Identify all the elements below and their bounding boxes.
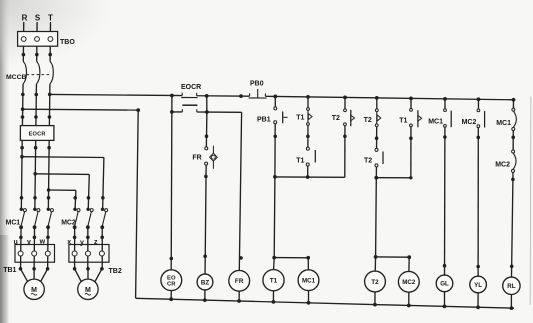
svg-text:TB2: TB2 xyxy=(109,268,122,275)
wire T2 branch lower xyxy=(343,126,347,178)
node junction BZ/FR tap xyxy=(205,110,209,114)
svg-text:R: R xyxy=(22,14,28,23)
wire drop to T1 MC1 coils xyxy=(273,177,276,258)
contact MC1 NO aux xyxy=(428,99,451,139)
wire T1 branch middle xyxy=(306,125,310,147)
lamp RL xyxy=(503,277,520,310)
page edge line right xyxy=(529,97,532,306)
svg-text:FR: FR xyxy=(192,155,201,162)
svg-text:PB1: PB1 xyxy=(257,117,271,124)
node z terminal label xyxy=(94,239,98,246)
contact MC2 NC aux xyxy=(495,137,516,181)
wire MC2 feed from phase T xyxy=(47,188,76,209)
wire EOCR block right side drop xyxy=(206,96,208,112)
wire tie above T1 MC1 coils xyxy=(272,256,310,270)
junction dots above EOCR box xyxy=(21,115,52,119)
wire YL branch xyxy=(476,137,480,276)
contact T1 timed NO second xyxy=(399,98,421,177)
node rail dot left of PB0 xyxy=(239,94,243,98)
node T phase label xyxy=(48,14,53,23)
wire BZ branch lower xyxy=(203,165,207,274)
wire phase T vertical xyxy=(48,22,51,269)
node junction EO branch at NO row xyxy=(170,110,174,114)
lamp GL xyxy=(436,275,453,308)
contact EOCR NC on rail xyxy=(181,84,201,105)
node rail junction T2 second branch xyxy=(375,96,379,100)
svg-text:EOCR: EOCR xyxy=(29,131,46,137)
terminal block TB1 xyxy=(3,245,54,274)
wire RL branch xyxy=(510,179,514,277)
coil timer T2 xyxy=(365,271,386,306)
contact T2 NO instant xyxy=(364,148,383,167)
node S phase label xyxy=(35,14,41,23)
svg-text:M: M xyxy=(85,287,91,294)
node rail junction at EOCR right xyxy=(205,94,209,98)
node rail junction at EOCR left xyxy=(170,94,174,98)
svg-text:TB1: TB1 xyxy=(3,267,16,274)
svg-text:TBO: TBO xyxy=(60,39,75,46)
svg-text:y: y xyxy=(80,239,84,246)
contact FR flasher xyxy=(192,146,217,169)
svg-text:MC2: MC2 xyxy=(61,219,76,226)
contact T1 NO instant xyxy=(296,147,315,166)
wire MC2 feed from phase S xyxy=(33,172,89,209)
svg-text:T1: T1 xyxy=(296,158,304,165)
coil flasher relay FR xyxy=(229,270,250,303)
wire motor 1 leads xyxy=(21,269,48,282)
svg-text:GL: GL xyxy=(440,281,449,288)
junction dots below TB2 xyxy=(73,267,104,271)
wire drop to T2 MC2 coils xyxy=(375,178,378,257)
wire FR coil feed xyxy=(207,112,243,270)
svg-text:T2: T2 xyxy=(364,158,372,165)
svg-text:MC1: MC1 xyxy=(428,119,443,126)
contact T2 timed NO second xyxy=(364,98,381,127)
svg-text:S: S xyxy=(35,14,41,23)
motor M1 xyxy=(24,279,44,299)
contact EOCR NO row xyxy=(172,109,207,112)
contactor MC2 main contacts xyxy=(61,208,107,230)
svg-text:MC2: MC2 xyxy=(495,162,510,169)
relay EOCR power box xyxy=(20,126,54,141)
wire PB1 branch lower xyxy=(273,124,277,177)
junction dots below EOCR box xyxy=(20,146,51,150)
junction dots below TB1 xyxy=(19,267,50,271)
wire tie PB1/T1/T2 branches xyxy=(273,175,345,179)
pushbutton PB1 NO xyxy=(257,96,288,123)
svg-text:T1: T1 xyxy=(296,115,304,122)
contact MC1 NC aux xyxy=(496,100,516,139)
svg-text:T: T xyxy=(48,14,53,23)
junction dots row above contactor contacts xyxy=(20,196,105,200)
wire tie above T2 MC2 coils xyxy=(374,255,411,271)
svg-text:MC2: MC2 xyxy=(402,279,416,286)
coil buzzer BZ xyxy=(197,274,213,302)
pushbutton PB0 NC on rail xyxy=(249,81,267,99)
contact T1 timed NO xyxy=(296,97,312,126)
wire tie T2/T1 second branches xyxy=(374,176,412,180)
wire control bottom feed from phase R xyxy=(23,108,141,298)
wire motor 2 leads xyxy=(75,269,102,282)
node R phase label xyxy=(22,14,28,23)
junction dots above control taps xyxy=(21,93,51,97)
node w terminal label xyxy=(39,238,46,245)
svg-text:M: M xyxy=(31,287,37,294)
coil EOCR xyxy=(161,270,182,301)
svg-text:CR: CR xyxy=(167,282,176,288)
svg-text:MC1: MC1 xyxy=(496,120,511,127)
svg-text:T2: T2 xyxy=(332,115,340,122)
wire MC2 feed from phase R xyxy=(20,155,104,209)
wire GL branch xyxy=(443,137,447,275)
node rail junction T1 branch xyxy=(306,95,310,99)
node rail junction T2 branch xyxy=(343,96,347,100)
svg-text:RL: RL xyxy=(507,283,515,290)
wire T1 branch lower xyxy=(307,166,309,177)
svg-text:T2: T2 xyxy=(364,117,372,124)
node rail junction PB1 branch xyxy=(273,95,277,99)
node control L1 tap dot on phase R xyxy=(21,107,25,111)
terminal block TB2 xyxy=(69,245,122,275)
wire phase R vertical xyxy=(21,22,24,269)
junction dots terminal row xyxy=(19,236,104,240)
wire MC2 poles to TB2 xyxy=(75,227,103,269)
node rail junction MC1 lamp branch xyxy=(443,97,447,101)
node rail junction MC2 lamp branch xyxy=(477,97,481,101)
coil contactor MC2 xyxy=(398,271,419,307)
node v terminal label xyxy=(27,239,31,246)
svg-text:MCCB: MCCB xyxy=(6,74,26,81)
wire EOCR coil branch xyxy=(170,96,174,270)
contact MC2 NO aux xyxy=(462,99,485,139)
lamp YL xyxy=(470,276,487,309)
wire T2 second branch lower xyxy=(375,167,377,178)
wire BZ branch upper xyxy=(205,112,209,147)
circuit breaker MCCB xyxy=(6,62,53,85)
svg-text:YL: YL xyxy=(474,282,482,289)
contact T2 timed NO xyxy=(332,97,355,126)
junction dots below TBO xyxy=(22,53,52,57)
node rail junction T1 second branch xyxy=(409,96,413,100)
motor M2 xyxy=(78,279,98,299)
svg-text:T2: T2 xyxy=(371,279,379,286)
svg-text:BZ: BZ xyxy=(201,279,209,286)
coil timer T1 xyxy=(263,270,284,304)
svg-text:PB0: PB0 xyxy=(250,81,264,88)
coil contactor MC1 xyxy=(298,270,319,305)
terminal block TBO xyxy=(18,32,76,47)
svg-text:FR: FR xyxy=(235,278,244,285)
svg-text:T1: T1 xyxy=(270,278,278,285)
node y terminal label xyxy=(80,239,84,246)
node rail junction RL branch xyxy=(512,98,516,102)
wire control bottom rail xyxy=(136,298,514,308)
svg-text:EOCR: EOCR xyxy=(181,84,201,91)
contactor MC1 main contacts xyxy=(6,208,54,230)
wire control top rail xyxy=(50,94,514,99)
svg-text:MC2: MC2 xyxy=(462,119,477,126)
svg-text:MC1: MC1 xyxy=(302,278,316,285)
wire phase S vertical xyxy=(34,22,37,269)
svg-text:MC1: MC1 xyxy=(6,219,21,226)
node u terminal label xyxy=(14,239,18,246)
wire T2 second branch middle xyxy=(375,127,379,149)
svg-text:T1: T1 xyxy=(399,118,407,125)
node x terminal label xyxy=(67,239,71,246)
